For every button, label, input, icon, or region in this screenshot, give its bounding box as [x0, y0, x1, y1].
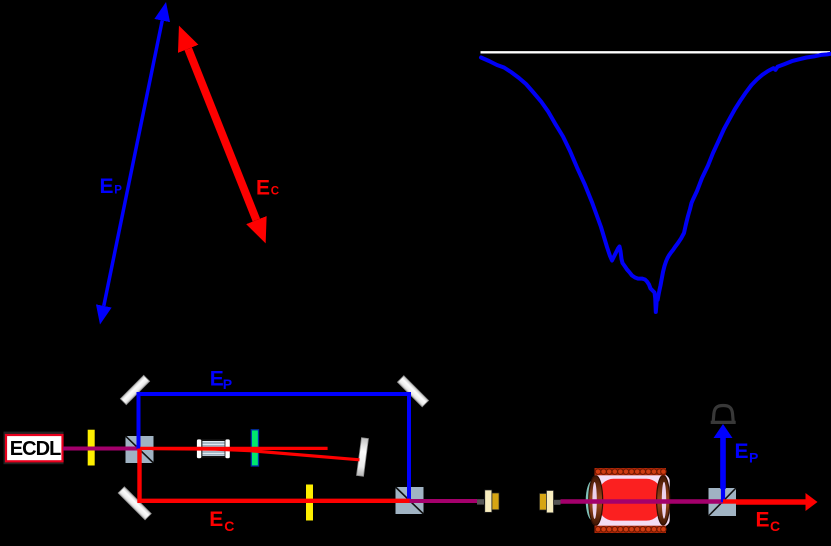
coupling output arrow E_C (thick red, to right)	[736, 499, 806, 505]
svg-text:E: E	[756, 509, 770, 532]
blue beam: M1 to M2 (E_P top leg)	[137, 392, 412, 396]
probe output arrow E_P (thick blue, to detector)	[720, 438, 726, 489]
transmission baseline (white line)	[481, 51, 831, 53]
svg-text:C: C	[770, 518, 780, 534]
svg-text:E: E	[100, 175, 114, 198]
waveplate W1 (yellow, after ECDL)	[88, 430, 95, 466]
mirror M1 top-left	[120, 375, 149, 404]
svg-text:P: P	[749, 450, 758, 466]
beamsplitter cube BS3	[709, 488, 737, 516]
level-diagram probe arrow E_P	[104, 21, 162, 306]
fiber coupler FC2 stub	[554, 500, 561, 505]
level-diagram coupling arrow E_C	[188, 49, 256, 220]
beamsplitter cube BS2	[396, 487, 424, 514]
red beam: BS3 to right edge of cube	[723, 499, 737, 503]
fiber coupler FC1 gold mount	[492, 493, 499, 510]
reference cell left end cap	[197, 439, 201, 458]
vapor cell right end ring	[657, 475, 670, 525]
tilted retro mirror M4 (saturation spectroscopy arm)	[357, 438, 369, 477]
vapor cell body	[592, 474, 670, 526]
svg-text:ECDL: ECDL	[10, 438, 62, 460]
svg-text:E: E	[209, 508, 223, 531]
green filter / etalon	[251, 430, 258, 466]
mirror M2 top-right	[397, 376, 428, 407]
red beam: spectroscopy return line (horizontal)	[140, 447, 328, 450]
vapor cell fluorescing interior	[599, 479, 662, 521]
svg-text:C: C	[271, 186, 279, 198]
reference cell right end cap	[225, 439, 229, 458]
vapor cell teal window (left)	[586, 481, 600, 521]
ECDL shadow	[4, 432, 64, 465]
BS3 diagonal	[709, 488, 737, 516]
BS1 diagonal	[126, 436, 154, 463]
fiber coupler FC1 stub	[477, 499, 484, 504]
photodetector dome	[711, 406, 736, 423]
blue beam: BS3 up (thin)	[721, 487, 725, 502]
blue beam: M2 down to BS2	[407, 392, 411, 501]
waveplate W2 (yellow, coupling arm)	[306, 485, 313, 521]
mirror M3 bottom-left	[118, 487, 151, 520]
svg-text:E: E	[210, 367, 224, 390]
svg-text:P: P	[114, 184, 122, 196]
heater coil top bar	[595, 468, 667, 475]
svg-text:C: C	[224, 518, 234, 534]
ECDL laser box	[6, 435, 63, 461]
red beam: M3 to BS2 (E_C bottom leg)	[138, 499, 411, 503]
fiber coupler FC1 cream lens	[485, 490, 492, 512]
fiber coupler FC2 cream lens	[547, 491, 554, 513]
red beam: BS1 down to M3	[137, 449, 141, 503]
svg-text:P: P	[223, 376, 232, 392]
blue beam: BS1 up to M1	[137, 392, 141, 449]
transmission spectrum curve with EIT peak	[481, 54, 831, 312]
svg-text:E: E	[735, 440, 749, 463]
reference cell (striped cylinder) body	[202, 440, 226, 457]
vapor cell left end ring	[589, 476, 603, 526]
BS2 diagonal	[396, 487, 424, 514]
magenta beam: FC2 through vapor cell to BS3	[561, 499, 724, 503]
beamsplitter cube BS1	[126, 436, 154, 463]
svg-text:E: E	[256, 176, 270, 199]
heater coil bottom bar	[595, 526, 667, 533]
magenta beam: BS2 to FC1	[410, 499, 478, 503]
magenta beam: ECDL to BS1	[63, 447, 140, 451]
fiber coupler FC2 gold mount	[540, 494, 547, 511]
red beam: spectroscopy line to tilted mirror	[152, 449, 360, 460]
